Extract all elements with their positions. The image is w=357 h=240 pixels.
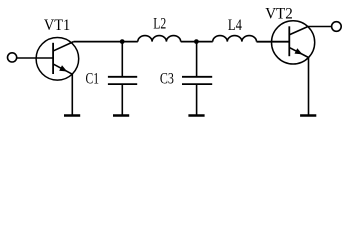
wire: input terminal to VT1 base — [16, 57, 53, 59]
svg-text:VT2: VT2 — [265, 6, 293, 23]
wire: VT2 collector to output terminal — [308, 26, 332, 28]
output terminal (right port) — [332, 22, 342, 32]
svg-text:L4: L4 — [228, 17, 242, 34]
transistor VT1 — [36, 38, 79, 115]
svg-text:C3: C3 — [160, 71, 174, 88]
transistor VT2 — [272, 21, 315, 115]
capacitor C3 — [182, 42, 212, 115]
input terminal (left port) — [8, 53, 17, 62]
inductor L4 — [213, 36, 257, 42]
node B: junction of top rail and C3 — [194, 39, 199, 44]
wire: VT1 collector to L2 (top rail) — [74, 41, 138, 43]
svg-text:C1: C1 — [86, 71, 100, 88]
capacitor C1 — [108, 42, 137, 115]
ground (C3) — [188, 114, 204, 116]
svg-text:VT1: VT1 — [44, 17, 70, 34]
wire: L4 to VT2 base — [257, 41, 290, 43]
node A: junction of top rail and C1 — [120, 39, 125, 44]
ground (VT1 emitter) — [64, 114, 80, 116]
ground (C1) — [113, 114, 129, 116]
wire: L2 to L4 (top rail) — [181, 41, 213, 43]
inductor L2 — [138, 36, 181, 42]
svg-text:L2: L2 — [153, 16, 166, 33]
ground (VT2 emitter) — [300, 114, 316, 116]
